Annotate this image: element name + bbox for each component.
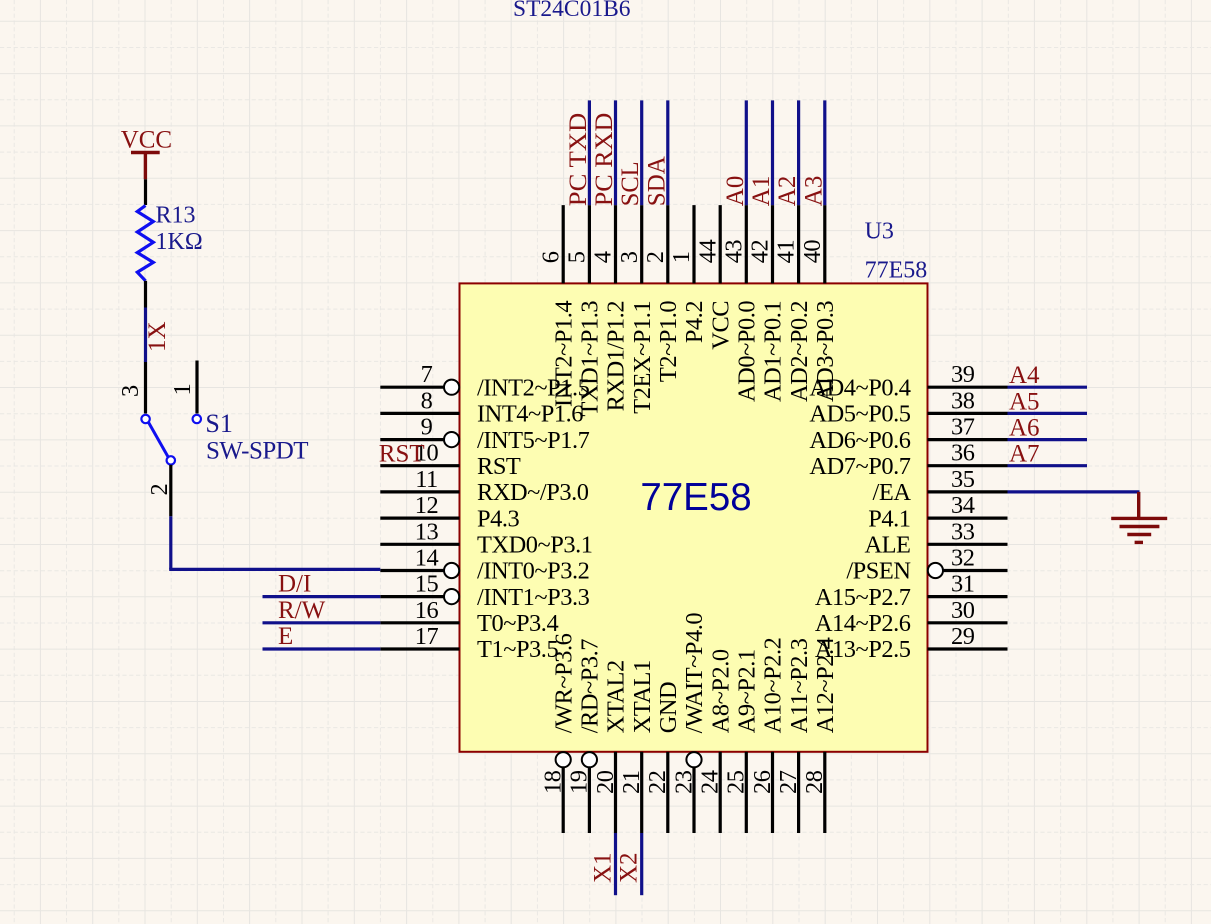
switch S1 contacts and lever — [141, 415, 201, 465]
wire VCC to R13 — [144, 179, 147, 205]
svg-text:A9~P2.1: A9~P2.1 — [734, 649, 761, 733]
svg-text:GND: GND — [655, 682, 682, 734]
svg-text:23: 23 — [670, 770, 697, 794]
svg-text:/RD~P3.7: /RD~P3.7 — [577, 639, 604, 734]
svg-text:A4: A4 — [1009, 362, 1040, 389]
wire net A7 (horizontal) — [1008, 464, 1088, 467]
svg-text:2: 2 — [642, 252, 669, 264]
svg-text:/EA: /EA — [873, 479, 912, 506]
svg-text:36: 36 — [951, 440, 975, 467]
wire net X1 (vertical) — [614, 833, 617, 895]
wire S1 pin2 down — [169, 516, 172, 569]
svg-text:X1: X1 — [589, 852, 616, 883]
svg-text:16: 16 — [415, 597, 439, 624]
svg-text:AD7~P0.7: AD7~P0.7 — [809, 453, 910, 480]
svg-text:28: 28 — [801, 770, 828, 794]
pin 24 (A8~P2.0) bottom — [697, 649, 735, 833]
svg-text:A2: A2 — [774, 176, 801, 207]
pin 36 (AD7~P0.7) right — [809, 440, 1007, 480]
svg-text:7: 7 — [421, 361, 433, 388]
svg-text:SW-SPDT: SW-SPDT — [206, 437, 308, 464]
pin 19 (/RD~P3.7) bottom — [566, 639, 604, 833]
svg-text:12: 12 — [415, 492, 439, 519]
pin 32 (/PSEN) right — [846, 545, 1007, 585]
svg-text:1: 1 — [668, 252, 695, 264]
svg-text:A7: A7 — [1009, 441, 1040, 468]
pin 25 (A9~P2.1) bottom — [723, 649, 761, 833]
pin 33 (ALE) right — [864, 518, 1007, 558]
pin 11 (RXD~/P3.0) left — [380, 466, 588, 506]
svg-text:37: 37 — [951, 414, 975, 441]
svg-text:RXD1/P1.2: RXD1/P1.2 — [603, 301, 630, 411]
svg-text:15: 15 — [415, 571, 439, 598]
pin 28 (A12~P2.4) bottom — [801, 637, 839, 833]
pin 4 (RXD1/P1.2) top — [590, 205, 630, 411]
svg-text:1X: 1X — [144, 321, 171, 352]
svg-text:40: 40 — [799, 240, 826, 264]
pin 43 (AD0~P0.0) top — [720, 205, 760, 402]
wire net D/I (horizontal) — [263, 595, 381, 598]
wire net X2 (vertical) — [640, 833, 643, 895]
pin 42 (AD1~P0.1) top — [747, 205, 787, 402]
svg-text:A5: A5 — [1009, 388, 1040, 415]
svg-text:A12~P2.4: A12~P2.4 — [812, 637, 839, 733]
svg-text:43: 43 — [720, 240, 747, 264]
svg-text:/PSEN: /PSEN — [846, 558, 911, 585]
wire R13 to S1 (black upper) — [144, 281, 147, 308]
pin 5 (TXD1~P1.3) top — [564, 205, 604, 416]
svg-text:VCC: VCC — [707, 301, 734, 350]
svg-text:PC RXD: PC RXD — [591, 113, 618, 207]
wire /EA to ground — [1008, 490, 1140, 493]
svg-text:A3: A3 — [800, 176, 827, 207]
pin 31 (A15~P2.7) right — [815, 571, 1008, 611]
svg-text:AD1~P0.1: AD1~P0.1 — [760, 301, 787, 402]
pin 9 (/INT5~P1.7) left — [380, 414, 589, 454]
svg-text:42: 42 — [747, 240, 774, 264]
wire net R/W (horizontal) — [263, 621, 381, 624]
svg-text:RST: RST — [477, 453, 521, 480]
wire net A3 (vertical) — [823, 100, 826, 205]
pin 8 (INT4~P1.6) left — [380, 387, 583, 427]
svg-text:4: 4 — [590, 251, 617, 263]
svg-text:1: 1 — [169, 383, 196, 395]
wire net A0 (vertical) — [745, 100, 748, 205]
svg-text:T1~P3.5: T1~P3.5 — [477, 636, 558, 663]
svg-text:3: 3 — [616, 251, 643, 263]
svg-text:18: 18 — [540, 770, 567, 794]
pin 16 (T0~P3.4) left — [380, 597, 558, 637]
svg-text:6: 6 — [537, 251, 564, 263]
pin 29 (A13~P2.5) right — [815, 623, 1008, 663]
svg-text:SDA: SDA — [643, 156, 670, 206]
wire net A2 (vertical) — [797, 100, 800, 205]
svg-text:INT2~P1.4: INT2~P1.4 — [550, 301, 577, 407]
pin 34 (P4.1) right — [868, 492, 1007, 532]
svg-text:T2~P1.0: T2~P1.0 — [655, 301, 682, 382]
resistor R13 — [137, 206, 153, 281]
wire net SDA (vertical) — [666, 100, 669, 205]
svg-text:26: 26 — [749, 770, 776, 794]
svg-text:77E58: 77E58 — [640, 476, 751, 519]
svg-text:9: 9 — [421, 414, 433, 441]
svg-text:2: 2 — [146, 483, 173, 495]
svg-text:P4.2: P4.2 — [681, 301, 708, 343]
svg-text:22: 22 — [644, 771, 671, 795]
svg-text:34: 34 — [951, 492, 975, 519]
svg-text:21: 21 — [618, 771, 645, 795]
pin 22 (GND) bottom — [644, 682, 682, 833]
wire net PC RXD (vertical) — [614, 100, 617, 205]
svg-text:A8~P2.0: A8~P2.0 — [707, 649, 734, 733]
svg-text:XTAL2: XTAL2 — [603, 660, 630, 733]
power symbol VCC — [121, 126, 172, 179]
svg-text:A0: A0 — [722, 176, 749, 207]
svg-text:19: 19 — [566, 770, 593, 794]
svg-text:X2: X2 — [616, 852, 643, 883]
pin 38 (AD5~P0.5) right — [809, 387, 1007, 427]
pin 41 (AD2~P0.2) top — [773, 205, 813, 402]
svg-text:XTAL1: XTAL1 — [629, 660, 656, 733]
pin 3 (T2EX~P1.1) top — [616, 205, 656, 414]
svg-text:29: 29 — [951, 623, 975, 650]
pin 6 (INT2~P1.4) top — [537, 205, 577, 407]
svg-text:TXD0~P3.1: TXD0~P3.1 — [477, 532, 593, 559]
pin 39 (AD4~P0.4) right — [809, 361, 1007, 401]
wire net A6 (horizontal) — [1008, 438, 1088, 441]
pin 7 (/INT2~P1.5) left — [380, 361, 589, 401]
pin 26 (A10~P2.2) bottom — [749, 638, 787, 833]
svg-text:11: 11 — [415, 466, 438, 493]
svg-text:14: 14 — [415, 545, 439, 572]
svg-text:T2EX~P1.1: T2EX~P1.1 — [629, 301, 656, 414]
svg-text:TXD1~P1.3: TXD1~P1.3 — [577, 301, 604, 417]
svg-text:13: 13 — [415, 518, 439, 545]
wire net PC TXD (vertical) — [588, 100, 591, 205]
svg-text:ST24C01B6: ST24C01B6 — [513, 0, 631, 22]
svg-text:A14~P2.6: A14~P2.6 — [815, 610, 911, 637]
switch S1 pin 2 — [146, 465, 173, 517]
wire S1 to pin 14 — [169, 568, 380, 571]
svg-text:77E58: 77E58 — [865, 258, 928, 284]
svg-text:A11~P2.3: A11~P2.3 — [786, 638, 813, 733]
wire net SCL (vertical) — [640, 100, 643, 205]
svg-text:A6: A6 — [1009, 415, 1040, 442]
svg-text:AD3~P0.3: AD3~P0.3 — [812, 301, 839, 402]
svg-text:A1: A1 — [748, 176, 775, 207]
svg-text:R13: R13 — [156, 203, 196, 229]
wire net A5 (horizontal) — [1008, 412, 1088, 415]
svg-text:25: 25 — [723, 770, 750, 794]
svg-text:8: 8 — [421, 387, 433, 414]
svg-text:E: E — [278, 623, 293, 650]
wire net X1 (vertical blue) — [144, 308, 147, 363]
wire net A1 (vertical) — [771, 100, 774, 205]
pin 13 (TXD0~P3.1) left — [380, 518, 592, 558]
svg-text:33: 33 — [951, 518, 975, 545]
pin 12 (P4.3) left — [380, 492, 519, 532]
switch S1 pin 3 — [117, 362, 146, 414]
svg-text:AD0~P0.0: AD0~P0.0 — [734, 301, 761, 402]
svg-text:/WR~P3.6: /WR~P3.6 — [550, 633, 577, 733]
pin 27 (A11~P2.3) bottom — [775, 638, 813, 833]
svg-text:R/W: R/W — [278, 597, 326, 624]
svg-text:RXD~/P3.0: RXD~/P3.0 — [477, 479, 589, 506]
svg-text:A10~P2.2: A10~P2.2 — [760, 638, 787, 734]
svg-text:30: 30 — [951, 597, 975, 624]
svg-text:44: 44 — [694, 240, 721, 264]
svg-text:17: 17 — [415, 623, 439, 650]
pin 20 (XTAL2) bottom — [592, 660, 630, 833]
svg-text:PC TXD: PC TXD — [565, 113, 592, 207]
pin 18 (/WR~P3.6) bottom — [540, 633, 578, 833]
svg-text:RST: RST — [379, 441, 425, 468]
pin 15 (/INT1~P3.3) left — [380, 571, 589, 611]
svg-text:AD2~P0.2: AD2~P0.2 — [786, 301, 813, 402]
svg-text:AD6~P0.6: AD6~P0.6 — [809, 427, 910, 454]
svg-text:31: 31 — [951, 571, 975, 598]
svg-text:SCL: SCL — [617, 161, 644, 206]
svg-text:39: 39 — [951, 361, 975, 388]
svg-text:U3: U3 — [865, 219, 894, 245]
ground — [1111, 492, 1167, 543]
svg-text:5: 5 — [564, 251, 591, 263]
svg-text:1KΩ: 1KΩ — [156, 229, 203, 255]
svg-text:41: 41 — [773, 240, 800, 264]
svg-text:T0~P3.4: T0~P3.4 — [477, 610, 558, 637]
pin 23 (/WAIT~P4.0) bottom — [670, 613, 708, 833]
pin 37 (AD6~P0.6) right — [809, 414, 1007, 454]
svg-text:P4.1: P4.1 — [868, 505, 910, 532]
wire net A4 (horizontal) — [1008, 386, 1088, 389]
svg-text:ALE: ALE — [864, 532, 910, 559]
pin 30 (A14~P2.6) right — [815, 597, 1008, 637]
svg-text:P4.3: P4.3 — [477, 505, 520, 532]
svg-text:/INT1~P3.3: /INT1~P3.3 — [477, 584, 590, 611]
pin 17 (T1~P3.5) left — [380, 623, 558, 663]
pin 14 (/INT0~P3.2) left — [380, 545, 589, 585]
pin 1 (P4.2) top — [668, 205, 708, 343]
switch S1 pin 1 — [169, 361, 197, 414]
pin 2 (T2~P1.0) top — [642, 205, 682, 382]
svg-text:24: 24 — [697, 770, 724, 794]
IC U3 body — [460, 283, 928, 751]
svg-text:3: 3 — [117, 385, 144, 397]
pin 35 (/EA) right — [873, 466, 1008, 506]
svg-text:D/I: D/I — [278, 571, 311, 598]
svg-text:/WAIT~P4.0: /WAIT~P4.0 — [681, 613, 708, 734]
svg-text:AD5~P0.5: AD5~P0.5 — [809, 401, 910, 428]
pin 21 (XTAL1) bottom — [618, 660, 656, 833]
svg-text:A15~P2.7: A15~P2.7 — [815, 584, 911, 611]
svg-text:S1: S1 — [205, 409, 232, 438]
pin 44 (VCC) top — [694, 205, 734, 350]
svg-text:35: 35 — [951, 466, 975, 493]
svg-text:20: 20 — [592, 770, 619, 794]
svg-text:/INT0~P3.2: /INT0~P3.2 — [477, 558, 589, 585]
svg-text:27: 27 — [775, 770, 802, 794]
wire net E (horizontal) — [263, 647, 381, 650]
svg-text:/INT5~P1.7: /INT5~P1.7 — [477, 427, 590, 454]
pin 40 (AD3~P0.3) top — [799, 205, 839, 402]
svg-text:32: 32 — [951, 545, 975, 572]
svg-text:38: 38 — [951, 387, 975, 414]
pin 10 (RST) left — [380, 440, 521, 480]
svg-text:VCC: VCC — [121, 126, 172, 153]
